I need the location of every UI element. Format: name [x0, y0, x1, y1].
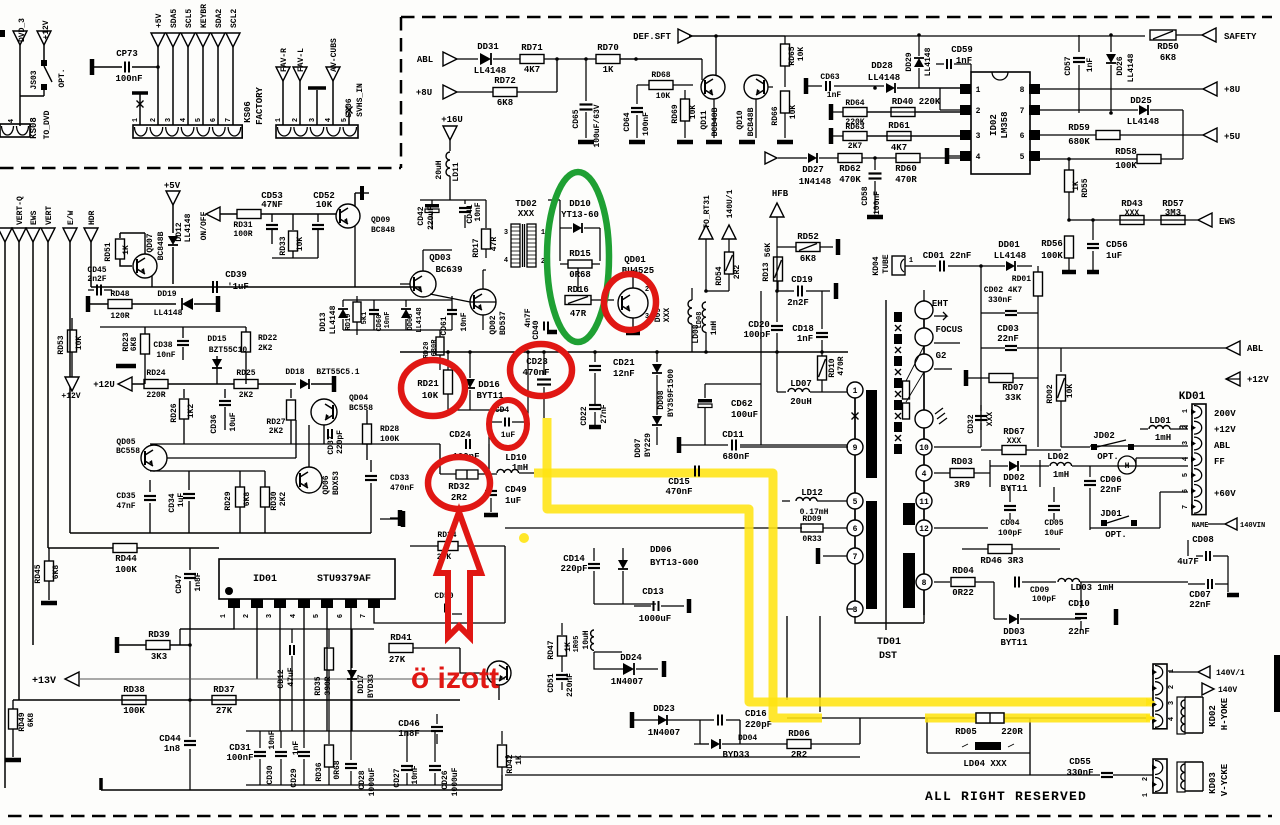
wire: [701, 59, 703, 80]
flyback pin 5: [847, 493, 863, 509]
svg-text:100K: 100K: [115, 565, 137, 575]
svg-text:RD07: RD07: [1002, 383, 1024, 393]
ID02 pin4 ground: [945, 148, 950, 164]
svg-text:QD10: QD10: [736, 110, 745, 129]
ID01 pin 5: [321, 599, 333, 608]
svg-text:RD60: RD60: [895, 164, 917, 174]
svg-text:1K: 1K: [564, 642, 573, 652]
wire +13V: [79, 678, 505, 680]
svg-text:1nF: 1nF: [797, 334, 813, 344]
wire IC outputs: [940, 88, 961, 110]
wire bus y444: [150, 443, 440, 445]
svg-text:CD59: CD59: [951, 45, 973, 55]
connector KD03 V-YOKE: [1153, 759, 1167, 793]
flyback core bar left: [866, 390, 877, 478]
wire bottom rows: [632, 719, 714, 721]
svg-text:KD04: KD04: [872, 256, 881, 275]
resistor RD34 27K: [438, 542, 458, 551]
diode DD02 BYT11: [990, 460, 1040, 487]
svg-text:2K2: 2K2: [239, 391, 254, 400]
flyback pin 1: [847, 382, 863, 398]
svg-text:KS06: KS06: [243, 101, 253, 123]
flyback pin 7: [847, 548, 863, 564]
svg-text:+13V: +13V: [32, 676, 56, 687]
svg-text:CD56: CD56: [1106, 240, 1128, 250]
svg-text:470R: 470R: [895, 175, 917, 185]
resistor RD50 6K8: [1150, 30, 1176, 40]
EHT wire: [923, 290, 925, 300]
svg-text:ö izott: ö izott: [411, 662, 499, 695]
connector EWS triangle: [26, 228, 40, 242]
capacitor CD62 100uF: [704, 384, 706, 398]
svg-text:CD01 22nF: CD01 22nF: [923, 251, 972, 261]
svg-text:1K: 1K: [603, 65, 614, 75]
resistor RD38 100K: [122, 696, 146, 705]
svg-text:TUBE: TUBE: [882, 254, 891, 273]
svg-text:SDA5: SDA5: [170, 9, 179, 28]
svg-text:SVHS_IN: SVHS_IN: [356, 83, 365, 117]
svg-text:LL4148: LL4148: [1127, 53, 1136, 82]
svg-text:5: 5: [1182, 473, 1190, 477]
resistor RD19 5K1: [353, 302, 361, 322]
inductor LD11 20uH: [449, 140, 451, 151]
svg-text:+12U: +12U: [93, 380, 115, 390]
svg-text:RD50: RD50: [1157, 42, 1179, 52]
wire ID01 pin2: [256, 608, 258, 679]
svg-text:10K: 10K: [689, 105, 698, 120]
svg-text:BY359F1500: BY359F1500: [667, 369, 676, 417]
svg-text:3K3: 3K3: [151, 652, 167, 662]
annotation red circle QD01: [604, 274, 656, 330]
resistor RD70 1K: [596, 55, 620, 64]
capacitor CD30 10nF: [280, 731, 282, 748]
svg-text:8: 8: [1020, 86, 1025, 95]
svg-text:LL4148: LL4148: [329, 305, 338, 334]
V-YOKE coil KD03: [1177, 762, 1185, 792]
svg-text:LL4148: LL4148: [994, 251, 1026, 261]
svg-text:RD43: RD43: [1121, 199, 1143, 209]
svg-text:470nF: 470nF: [390, 484, 414, 493]
diode DD31 LL4148: [480, 53, 491, 65]
svg-text:CD15: CD15: [668, 477, 690, 487]
flyback pin 12: [916, 520, 932, 536]
dashed border main block top: [401, 16, 1272, 19]
svg-text:10nF: 10nF: [268, 730, 277, 749]
wire: [715, 36, 717, 76]
svg-text:3M3: 3M3: [1165, 208, 1181, 218]
KS06 pin 4 wire: [181, 33, 195, 47]
ID02 pin 8: [1029, 84, 1040, 94]
svg-text:XXX: XXX: [518, 209, 535, 219]
svg-text:10uF: 10uF: [1044, 529, 1063, 538]
svg-text:BCB48B: BCB48B: [711, 107, 720, 136]
wire KD01 pin2: [1180, 426, 1188, 429]
capacitor CD51 220nF: [561, 668, 563, 672]
svg-text:DD27: DD27: [802, 165, 824, 175]
svg-text:1mH: 1mH: [710, 321, 719, 336]
svg-text:6: 6: [1020, 132, 1025, 141]
svg-text:+5V: +5V: [164, 181, 181, 191]
resistor RD06 2R2: [787, 740, 811, 749]
svg-text:22nF: 22nF: [1189, 600, 1211, 610]
flyback pin 10: [916, 439, 932, 455]
EHT terminal: [915, 301, 933, 319]
wire RD44 rail: [48, 547, 113, 549]
svg-text:RD47: RD47: [547, 640, 556, 659]
capacitor CD09 100pF: [1014, 577, 1016, 588]
resistor RD02 10K: [1060, 348, 1062, 372]
svg-text:RD61: RD61: [888, 121, 910, 131]
svg-text:LL4148: LL4148: [154, 309, 183, 318]
svg-text:CD63: CD63: [820, 73, 839, 82]
resistor RD49 6K8: [12, 700, 14, 709]
wire RD41 to QD08: [460, 666, 487, 673]
svg-text:2K7: 2K7: [848, 142, 863, 151]
svg-text:CD20: CD20: [748, 320, 770, 330]
capacitor CD16 220pF: [717, 715, 719, 726]
svg-text:LD02: LD02: [1047, 452, 1069, 462]
svg-text:0R68: 0R68: [569, 270, 591, 280]
wire: [527, 351, 529, 353]
transistor QD02 BD537: [470, 289, 496, 315]
resistor RD05 220R: [976, 713, 1004, 723]
inductor LD02 1mH: [1040, 465, 1049, 467]
svg-text:BYT11: BYT11: [1000, 484, 1028, 494]
svg-text:DD10: DD10: [569, 199, 591, 209]
svg-text:CD09: CD09: [1030, 586, 1049, 595]
capacitor CD33 470nF: [370, 460, 372, 472]
svg-text:3: 3: [976, 132, 981, 141]
flyback primary rail: [854, 386, 856, 616]
resistor RD53 10K: [71, 318, 73, 330]
capacitor CD36 10uF: [224, 389, 226, 398]
wire bus y352: [400, 351, 848, 353]
resistor RD26 1K2: [183, 389, 185, 398]
diode DD17 BYD33: [351, 629, 353, 668]
svg-text:RD06: RD06: [788, 729, 810, 739]
svg-text:RD05: RD05: [955, 727, 977, 737]
wire pin6 row: [505, 527, 802, 529]
switch JS03: [41, 60, 47, 66]
KS06 pin 6 wire: [211, 33, 225, 47]
svg-text:140V: 140V: [1218, 686, 1237, 695]
capacitor CD48 1uF (red ring): [489, 421, 502, 423]
resistor RD32 2R2 (red ring): [456, 470, 478, 479]
resistor RD13 56K: [774, 257, 783, 281]
capacitor CD15 redraw over highlight: [694, 466, 696, 477]
svg-text:RD24: RD24: [146, 369, 165, 378]
capacitor CD22 27nF: [589, 404, 601, 406]
capacitor CD38 10nF: [182, 327, 184, 338]
svg-text:+5V: +5V: [155, 13, 164, 28]
svg-text:CD38: CD38: [153, 341, 172, 350]
svg-text:OPT.: OPT.: [1097, 452, 1119, 462]
svg-text:BC558: BC558: [349, 404, 373, 413]
capacitor CD63 1nF: [804, 78, 809, 94]
wire: [548, 200, 560, 228]
svg-text:1K: 1K: [1072, 181, 1081, 191]
svg-text:RD68: RD68: [651, 71, 670, 80]
svg-text:RD45: RD45: [34, 564, 43, 583]
svg-text:1000uF: 1000uF: [368, 767, 377, 796]
wire: [776, 352, 778, 392]
svg-text:CD14: CD14: [563, 554, 585, 564]
svg-text:4: 4: [976, 153, 981, 162]
wire pin3 down: [787, 609, 855, 700]
wire ID01 pin6: [350, 608, 352, 731]
svg-text:CD26: CD26: [441, 770, 450, 789]
svg-text:220R: 220R: [1001, 727, 1023, 737]
diode DD07 BYZ29: [652, 416, 662, 425]
diode DD18 BZT55C5.1: [300, 379, 309, 389]
resistor RD21 10K (red ring): [447, 352, 449, 370]
svg-text:RD69: RD69: [671, 104, 680, 123]
wire: [100, 326, 246, 328]
svg-text:100nF: 100nF: [873, 191, 882, 215]
svg-text:SCL5: SCL5: [185, 9, 194, 28]
svg-text:YT13-60: YT13-60: [561, 210, 599, 220]
wire QD06-QD04: [309, 425, 324, 467]
connector left edge triangle: [0, 228, 12, 242]
connector +12V triangle: [37, 31, 51, 45]
svg-text:1N4007: 1N4007: [611, 677, 643, 687]
wire: [594, 603, 656, 605]
resistor RD46 3R3: [934, 527, 988, 529]
svg-text:680R: 680R: [431, 339, 439, 357]
svg-text:CD08: CD08: [1192, 535, 1214, 545]
svg-text:1: 1: [220, 614, 228, 618]
svg-text:QD07: QD07: [146, 233, 155, 252]
svg-text:1uF: 1uF: [1106, 251, 1122, 261]
svg-text:LD01: LD01: [1149, 416, 1171, 426]
svg-text:4u7F: 4u7F: [1177, 557, 1199, 567]
diode DD06 BYT13-G00: [618, 560, 628, 569]
capacitor CD01 22nF: [905, 265, 936, 267]
svg-text:KS08: KS08: [29, 117, 39, 139]
wire top safety row: [689, 35, 785, 37]
svg-text:QD03: QD03: [429, 253, 451, 263]
wire: [448, 409, 505, 411]
svg-text:RD63: RD63: [845, 123, 864, 132]
svg-text:2: 2: [243, 614, 251, 618]
svg-text:V-YCKE: V-YCKE: [1220, 763, 1230, 796]
wire left rail 5: [69, 242, 71, 533]
svg-text:4K7: 4K7: [891, 143, 907, 153]
annotation red circle CD23: [510, 344, 572, 396]
wire: [1187, 540, 1189, 556]
highlight yellow dot: [519, 533, 529, 543]
svg-text:RD41: RD41: [390, 633, 412, 643]
svg-text:FF: FF: [1214, 457, 1225, 467]
svg-text:2K2: 2K2: [258, 344, 273, 353]
svg-text:1mH: 1mH: [1053, 470, 1069, 480]
transistor QD08: [487, 661, 511, 685]
svg-text:LD08: LD08: [692, 324, 701, 343]
connector KD02 H-YOKE: [1153, 664, 1167, 729]
svg-text:1mH: 1mH: [1155, 433, 1171, 443]
svg-text:QD11: QD11: [700, 110, 709, 129]
svg-text:RD31: RD31: [233, 221, 252, 230]
svg-text:2: 2: [976, 107, 981, 116]
dashed border top-left block: [0, 17, 401, 168]
svg-text:LD12: LD12: [801, 488, 823, 498]
resistor RD41 27K: [389, 644, 413, 653]
connector SAFETY triangle: [1202, 28, 1216, 42]
transistor QD10 BCB48B: [744, 75, 768, 99]
wire: [505, 774, 1153, 776]
connector ON/OFF triangle: [206, 207, 220, 221]
capacitor CD64 100nF: [636, 85, 638, 104]
svg-text:+12V: +12V: [42, 20, 51, 39]
svg-text:CD37: CD37: [327, 435, 336, 454]
svg-text:RD48: RD48: [110, 290, 129, 299]
resistor RD52 6K8: [777, 246, 796, 248]
svg-text:JD01: JD01: [1100, 509, 1122, 519]
svg-text:CP73: CP73: [116, 49, 138, 59]
svg-text:10K: 10K: [797, 47, 806, 62]
svg-text:LL4148: LL4148: [474, 66, 506, 76]
svg-text:10nF: 10nF: [156, 351, 175, 360]
svg-text:2K2: 2K2: [269, 427, 284, 436]
wire: [498, 685, 500, 700]
resistor RD17 47R: [485, 200, 487, 228]
svg-text:100K: 100K: [1115, 161, 1137, 171]
wire +60V: [1090, 492, 1188, 528]
capacitor CD18 1nF: [821, 291, 823, 329]
svg-text:100nF: 100nF: [226, 753, 253, 763]
wire bus y731: [246, 730, 437, 732]
resistor RD63 2K7: [829, 128, 834, 144]
svg-text:10nF: 10nF: [384, 312, 392, 329]
capacitor CD35 47nF: [149, 480, 151, 492]
svg-text:100uF/63V: 100uF/63V: [593, 104, 602, 147]
inductor LD10 1mH: [489, 473, 497, 475]
ID02 pin 5: [1029, 151, 1040, 161]
diode DD08 BY359F1500: [656, 352, 658, 362]
FOCUS terminal: [915, 328, 933, 346]
svg-text:DEF.SFT: DEF.SFT: [633, 32, 671, 42]
KS06 pin 2 wire: [151, 33, 165, 47]
connector 140V/1 triangle: [1198, 666, 1210, 678]
wire left rail 1: [4, 242, 6, 788]
connector EWS triangle: [1198, 213, 1212, 227]
svg-text:3: 3: [504, 229, 508, 237]
svg-text:AV-CUBS: AV-CUBS: [330, 38, 339, 72]
flyback core bar right: [903, 503, 915, 525]
resistor RD07 33K: [964, 370, 969, 386]
svg-text:+12V: +12V: [61, 392, 80, 401]
svg-text:CD11: CD11: [722, 430, 744, 440]
svg-text:10: 10: [919, 444, 929, 453]
diode DD12 LL4148: [168, 236, 178, 245]
svg-text:2: 2: [1168, 685, 1176, 689]
svg-text:CD24: CD24: [449, 430, 471, 440]
wire y718 black under yellow: [787, 717, 1153, 719]
svg-text:10K: 10K: [75, 336, 84, 351]
svg-text:CD28: CD28: [358, 770, 367, 789]
svg-text:470nF: 470nF: [522, 368, 549, 378]
svg-text:6K8: 6K8: [243, 492, 252, 507]
diode DD03 BYT11: [994, 582, 1007, 619]
svg-text:100K: 100K: [1041, 251, 1063, 261]
svg-text:CD42: CD42: [417, 206, 426, 225]
resistor RD47 1K: [561, 623, 563, 635]
svg-text:2R2: 2R2: [451, 493, 467, 503]
svg-text:EHT: EHT: [932, 299, 949, 309]
svg-text:RD20: RD20: [423, 342, 431, 359]
capacitor CD20 100pF: [776, 291, 778, 322]
svg-text:DD05: DD05: [407, 314, 415, 331]
svg-text:ID01: ID01: [253, 574, 277, 585]
resistor RD27 2K2: [290, 389, 292, 398]
diode DD23 1N4007: [658, 715, 667, 725]
svg-text:1K: 1K: [122, 245, 131, 255]
svg-text:1R05: 1R05: [573, 636, 581, 653]
resistor RD45 6K8: [48, 548, 50, 561]
resistor RD37 27K: [212, 696, 236, 705]
connector 140V triangle: [1202, 683, 1214, 695]
wire: [705, 291, 761, 445]
wire: [694, 743, 700, 745]
svg-text:DVD_3: DVD_3: [18, 18, 27, 42]
svg-text:2: 2: [150, 118, 158, 122]
svg-text:CD16: CD16: [745, 709, 767, 719]
svg-text:DD12: DD12: [175, 222, 184, 241]
svg-text:LL4148: LL4148: [868, 73, 900, 83]
svg-text:SCL2: SCL2: [230, 9, 239, 28]
svg-text:QD01: QD01: [624, 255, 646, 265]
diode DD24 1N4007: [594, 651, 622, 653]
connector +5V triangle: [1203, 128, 1217, 142]
flyback pin 8: [916, 574, 932, 590]
heater terminal: [915, 410, 933, 428]
svg-text:220uF: 220uF: [427, 206, 436, 230]
svg-text:CD32: CD32: [967, 414, 976, 433]
svg-text:KEYBR: KEYBR: [200, 4, 209, 28]
svg-text:CD58: CD58: [861, 186, 870, 205]
svg-text:CD12: CD12: [277, 669, 286, 688]
svg-text:CD60: CD60: [376, 315, 384, 332]
wire bottom bus: [505, 756, 860, 758]
svg-text:ALL RIGHT RESERVED: ALL RIGHT RESERVED: [925, 789, 1087, 804]
svg-text:EWS: EWS: [1219, 217, 1236, 227]
svg-text:DD24: DD24: [620, 653, 642, 663]
capacitor CD15 470nF: [694, 466, 696, 477]
connector KS06 FACTORY: [133, 125, 242, 138]
wire KD01 pin4: [1136, 457, 1188, 459]
capacitor CD57 1nF: [1078, 35, 1080, 52]
svg-text:220pF: 220pF: [560, 564, 587, 574]
svg-text:4: 4: [504, 257, 508, 265]
resistor RD44 100K: [113, 544, 137, 553]
svg-text:470R: 470R: [837, 356, 846, 375]
svg-text:RD53: RD53: [57, 335, 66, 354]
svg-text:140VIN: 140VIN: [1240, 522, 1265, 530]
IC ID01 STU9379AF: [219, 559, 395, 599]
svg-text:1K2: 1K2: [187, 404, 196, 419]
svg-text:47R: 47R: [490, 237, 499, 252]
resistor RD28 100K: [366, 410, 368, 424]
svg-text:0R68: 0R68: [333, 760, 342, 779]
svg-text:RD51: RD51: [104, 242, 113, 261]
svg-text:RD40 220K: RD40 220K: [892, 97, 941, 107]
svg-text:RD46 3R3: RD46 3R3: [980, 556, 1023, 566]
svg-text:RD67: RD67: [1003, 427, 1025, 437]
wire pin1 left: [847, 389, 848, 391]
svg-text:47nF: 47nF: [116, 502, 135, 511]
svg-text:5: 5: [313, 614, 321, 618]
svg-text:LD10: LD10: [505, 453, 527, 463]
